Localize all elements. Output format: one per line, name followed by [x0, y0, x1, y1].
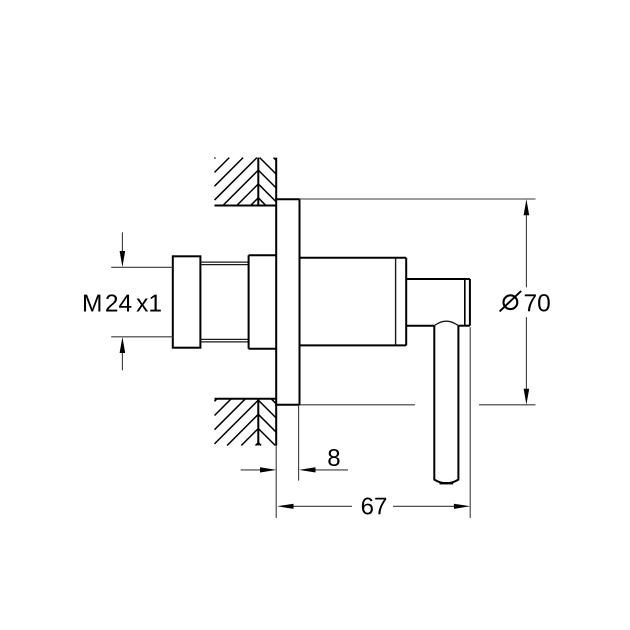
- extension line below wall (left extension of 67 dim): [275, 446, 277, 518]
- connection cylinder behind wall: [249, 255, 277, 349]
- dia70 dimension line with arrows: [524, 199, 530, 404]
- wall bottom section hatch (masonry, "/" lines): [215, 399, 259, 446]
- union nut collar (left): [173, 256, 201, 347]
- handle arm end cap line: [464, 279, 466, 326]
- M24 top extension line: [111, 266, 173, 268]
- wall top section hatch (masonry, "/" lines): [215, 158, 259, 206]
- valve body end ring line: [395, 258, 397, 346]
- wall bottom layer boundary line: [257, 399, 259, 446]
- svg-text:70: 70: [523, 290, 550, 317]
- M24 dimension arrow bottom: [120, 337, 126, 370]
- M24 dimension arrow top: [120, 232, 126, 267]
- lever bottom face line: [440, 482, 454, 484]
- dia70 top extension line: [300, 198, 536, 200]
- lever top fillet arc: [434, 321, 458, 326]
- threaded pipe M24 (double lines): [200, 262, 248, 342]
- wall top layer boundary line: [257, 158, 259, 206]
- label dia 70 symbol: [500, 291, 522, 312]
- wall bottom finish layer hatch ("\" lines): [258, 399, 276, 446]
- svg-text:M24x1: M24x1: [82, 290, 162, 317]
- dim 8 right arrow (outside): [299, 467, 348, 472]
- wall top finish layer hatch ("\" lines): [258, 158, 276, 206]
- dim 8 left arrow (outside): [241, 467, 277, 472]
- M24 bottom extension line: [111, 336, 173, 338]
- handle arm (horizontal): [406, 279, 470, 326]
- wall top bottom edge: [215, 205, 277, 207]
- lever (vertical grip): [434, 326, 458, 481]
- wall bottom top edge: [215, 398, 277, 400]
- svg-text:8: 8: [327, 445, 340, 472]
- dim 67 dimension line with arrows: [277, 504, 470, 509]
- valve body cylinder: [300, 258, 407, 346]
- wall surface line / escutcheon left edge: [275, 158, 277, 446]
- dia70 bottom extension line (two segments, gap at lever): [300, 404, 416, 406]
- dim 8 right extension line: [298, 406, 300, 481]
- lever bottom cap: [434, 480, 458, 484]
- dim 67 right extension line: [469, 327, 471, 518]
- escutcheon plate (side view): [275, 199, 299, 404]
- svg-text:67: 67: [361, 493, 388, 520]
